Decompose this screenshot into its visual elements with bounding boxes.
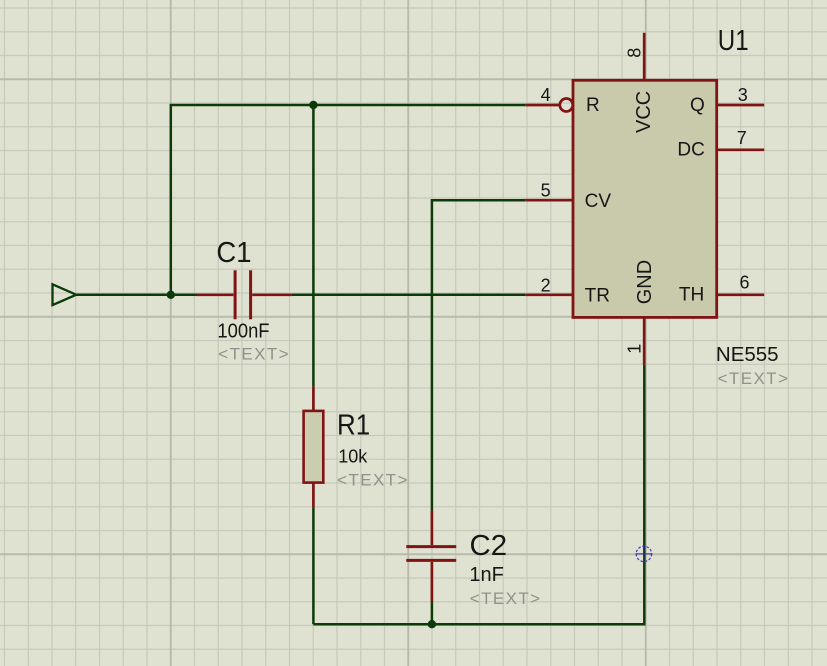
svg-text:<TEXT>: <TEXT> bbox=[718, 369, 790, 388]
pin 4 inversion bubble bbox=[560, 99, 573, 112]
svg-text:GND: GND bbox=[634, 260, 656, 304]
svg-text:DC: DC bbox=[677, 140, 704, 161]
pin 5 CV stub bbox=[525, 199, 573, 202]
svg-text:C2: C2 bbox=[470, 530, 508, 562]
svg-text:<TEXT>: <TEXT> bbox=[470, 589, 542, 608]
pin 8 VCC stub bbox=[643, 33, 646, 81]
wire: top horizontal net from left riser to pin R bbox=[171, 105, 526, 295]
resistor R1 body bbox=[304, 411, 324, 483]
svg-text:5: 5 bbox=[541, 180, 551, 200]
svg-text:<TEXT>: <TEXT> bbox=[337, 470, 409, 489]
svg-text:R: R bbox=[586, 95, 600, 116]
node marker blue origin circle bbox=[635, 545, 652, 562]
capacitor C1 plates bbox=[235, 270, 251, 319]
svg-text:CV: CV bbox=[585, 191, 612, 212]
svg-text:NE555: NE555 bbox=[716, 343, 779, 366]
wire: below R1 to bottom rail bbox=[312, 508, 315, 624]
svg-text:2: 2 bbox=[541, 276, 551, 296]
wire: vertical riser x=313.5 from top wire down to R1 bbox=[312, 105, 315, 386]
svg-text:U1: U1 bbox=[718, 24, 749, 57]
input terminal triangle bbox=[53, 284, 77, 305]
wire: input terminal to C1 bbox=[76, 294, 196, 297]
capacitor C2 bottom lead bbox=[431, 562, 434, 601]
pin 1 GND stub bbox=[643, 317, 646, 365]
pin 3 Q stub bbox=[717, 104, 765, 107]
wire: bottom rail bbox=[313, 365, 644, 624]
capacitor C2 plates bbox=[406, 547, 456, 561]
svg-text:100nF: 100nF bbox=[217, 321, 269, 343]
resistor R1 top lead bbox=[312, 386, 315, 411]
pin 2 TR stub bbox=[525, 293, 573, 296]
wire: CV net from pin 5 down to C2 bbox=[432, 200, 525, 510]
wire: C1 right lead to pin TR bbox=[292, 294, 526, 297]
svg-text:<TEXT>: <TEXT> bbox=[218, 345, 290, 364]
svg-text:R1: R1 bbox=[337, 408, 370, 441]
op-amp/IC U1 body NE555 bbox=[573, 80, 717, 317]
svg-text:4: 4 bbox=[541, 85, 551, 105]
svg-text:TR: TR bbox=[585, 286, 610, 307]
svg-text:C1: C1 bbox=[216, 236, 251, 269]
resistor R1 bottom lead bbox=[312, 483, 315, 508]
pin 4 R stub bbox=[525, 104, 559, 107]
svg-text:Q: Q bbox=[690, 95, 705, 116]
svg-text:1: 1 bbox=[625, 344, 645, 354]
node junction dot at input riser bbox=[167, 291, 175, 299]
capacitor C1 right lead bbox=[252, 293, 291, 296]
pin 7 DC stub bbox=[717, 148, 765, 151]
svg-text:1nF: 1nF bbox=[469, 564, 503, 586]
wire: C2 bottom lead to bottom rail bbox=[431, 601, 434, 624]
svg-text:TH: TH bbox=[679, 285, 704, 306]
capacitor C1 left lead bbox=[197, 293, 234, 296]
capacitor C2 top lead bbox=[431, 511, 434, 545]
pin 6 TH stub bbox=[717, 293, 765, 296]
svg-text:7: 7 bbox=[737, 128, 747, 148]
svg-text:6: 6 bbox=[740, 273, 750, 293]
node junction dot on top wire bbox=[309, 101, 317, 109]
node junction dot at bottom rail bbox=[428, 620, 436, 628]
svg-text:10k: 10k bbox=[338, 446, 368, 466]
svg-text:8: 8 bbox=[625, 48, 645, 58]
svg-text:3: 3 bbox=[738, 85, 748, 105]
svg-text:VCC: VCC bbox=[633, 91, 655, 133]
